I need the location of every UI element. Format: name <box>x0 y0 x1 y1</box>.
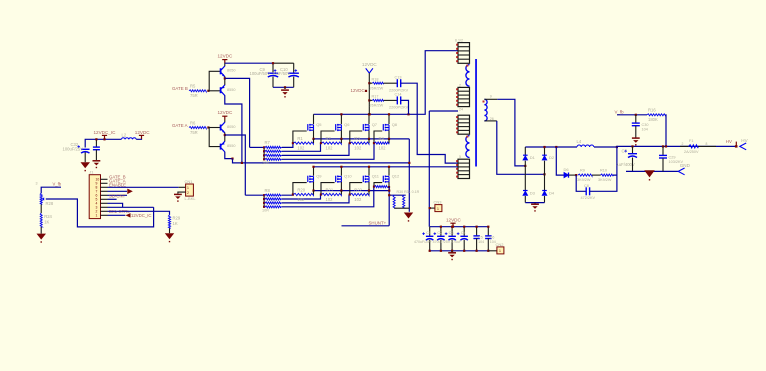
wire damper drop left <box>556 147 564 175</box>
svg-text:100uF/25V: 100uF/25V <box>63 147 84 152</box>
diode D3 <box>523 191 536 196</box>
svg-text:10R: 10R <box>262 208 269 212</box>
svg-text:C3: C3 <box>449 231 454 235</box>
junction R7 row3 <box>263 154 265 156</box>
svg-text:Q12: Q12 <box>392 174 400 179</box>
wire pot to R24 <box>40 204 42 213</box>
transistor Q4 <box>221 141 225 152</box>
svg-text:Q6: Q6 <box>344 122 350 127</box>
svg-text:V_fb: V_fb <box>615 110 625 115</box>
wire top source bus <box>314 138 410 140</box>
wire C29 top <box>662 146 664 155</box>
svg-text:10uF/50V: 10uF/50V <box>272 71 290 76</box>
wire Q2 collector <box>225 95 242 163</box>
wire C29 bottom <box>662 158 664 171</box>
wire bank ground stem <box>451 251 453 253</box>
transistor Q7 mosfet top <box>363 122 378 131</box>
junction drain Q10 <box>340 166 342 168</box>
junction C4 bottom <box>463 250 465 252</box>
capacitor C2 <box>434 232 445 240</box>
wire lower network left bus <box>263 195 265 207</box>
svg-text:8050: 8050 <box>227 125 235 129</box>
svg-text:26R/2W: 26R/2W <box>370 104 384 108</box>
svg-text:R9: R9 <box>580 169 585 173</box>
svg-text:R30 R31 0.1R: R30 R31 0.1R <box>397 190 420 194</box>
wire driver A output <box>225 135 246 195</box>
capacitor C30 <box>632 123 640 126</box>
wire C32 to ground <box>84 152 86 162</box>
junction R18 <box>368 82 370 84</box>
wire R21 to source <box>340 191 342 195</box>
capacitor C6 <box>485 236 492 239</box>
inductor L2 <box>121 138 136 140</box>
wire top drain rail <box>314 51 459 115</box>
net label V_fb output <box>615 110 625 115</box>
junction GATE_B base <box>207 90 209 92</box>
junction R7 row1 <box>263 146 265 148</box>
svg-text:1K: 1K <box>44 219 49 224</box>
wire base PNP B <box>209 90 220 92</box>
wire R2 to source <box>340 139 342 143</box>
wire C5 top lead <box>476 227 478 236</box>
capacitor C5 <box>473 236 480 239</box>
wire Q6 gate lead <box>321 131 335 143</box>
wire J1 pin6 <box>108 198 117 200</box>
wire 12VDC to Q1 collector <box>224 63 226 66</box>
svg-text:R4: R4 <box>379 136 385 141</box>
junction power bank <box>452 226 454 228</box>
ground R29 <box>165 233 174 242</box>
svg-text:Q10: Q10 <box>344 174 352 179</box>
pin number CN1-1 <box>187 186 189 190</box>
junction C9 top <box>272 62 274 64</box>
label C30 <box>642 123 649 127</box>
wire J1 pin10 <box>108 214 126 216</box>
svg-text:100uF/50V: 100uF/50V <box>250 71 271 76</box>
pin 1 connector J1 <box>101 178 108 180</box>
junction C6 bottom <box>487 250 489 252</box>
svg-text:R17: R17 <box>372 95 379 99</box>
svg-text:R2: R2 <box>326 136 332 141</box>
svg-text:R18: R18 <box>372 77 379 81</box>
ground cap bank <box>448 253 456 260</box>
wire Q5 gate lead <box>293 131 307 143</box>
wire Q11 drain <box>368 167 370 176</box>
junction R8 row2 <box>263 198 265 200</box>
resistor R4 gate pulldown <box>375 136 390 151</box>
pin number J1-6 <box>96 194 98 198</box>
junction damper right <box>616 146 618 148</box>
svg-text:2: 2 <box>682 142 684 146</box>
label C6 <box>490 236 495 240</box>
svg-text:D6: D6 <box>564 167 570 172</box>
wire feed upper network <box>250 146 265 148</box>
wire R29 to ground <box>169 228 171 233</box>
wire center tap vertical <box>428 111 430 227</box>
pin number J1-7 <box>96 190 98 194</box>
label R7 <box>265 140 271 145</box>
wire GATE_B bases <box>208 71 220 91</box>
power label 12VDC B <box>218 54 233 59</box>
svg-text:102: 102 <box>297 197 305 202</box>
junction drain Q11 <box>368 166 370 168</box>
label C3 <box>449 231 454 235</box>
value R18 <box>370 86 384 90</box>
resistor R24 <box>40 213 52 227</box>
label C29 <box>669 155 676 159</box>
label L4 <box>577 139 582 144</box>
pin label winding2 <box>459 83 461 87</box>
value R10 <box>598 178 612 182</box>
arrow 12VDC_IC pin10 <box>126 213 131 218</box>
junction damper left <box>555 146 557 148</box>
wire C2 bottom lead <box>440 240 442 251</box>
svg-text:J1: J1 <box>89 169 94 174</box>
port HV <box>740 138 749 150</box>
pin label sec top <box>490 95 492 99</box>
svg-text:24: 24 <box>459 107 463 111</box>
wire C1 bottom lead <box>429 240 431 251</box>
wire V_fb <box>617 114 647 116</box>
wire C1 top lead <box>429 227 431 236</box>
svg-text:R22: R22 <box>354 187 362 192</box>
resistor R29 <box>168 215 180 228</box>
wire bank top rail <box>430 226 489 228</box>
value R17 <box>370 104 384 108</box>
wire Q3 emitter to Q4 <box>224 133 226 142</box>
junction gate Q9 <box>292 193 294 195</box>
svg-text:12VDC: 12VDC <box>218 54 233 59</box>
wire J1 pin7 loop <box>108 203 123 207</box>
resistor R6 <box>189 120 206 135</box>
junction C29 top <box>662 145 664 147</box>
svg-text:ENABLE: ENABLE <box>109 182 126 187</box>
wire J1 pin9 to R29 <box>108 211 170 215</box>
power label 12VDC A <box>218 110 233 115</box>
pin labels winding1 <box>455 39 463 43</box>
wire C6 top lead <box>487 227 489 236</box>
svg-text:12VDC: 12VDC <box>135 130 150 135</box>
junction arrow pin4 <box>127 189 133 195</box>
junction R7 row4 <box>263 158 265 160</box>
svg-text:C8: C8 <box>584 184 589 188</box>
junction C3 bottom <box>451 250 453 252</box>
wire R24 to ground <box>40 227 42 234</box>
label C2 <box>437 231 442 235</box>
svg-text:GND: GND <box>680 163 691 168</box>
label C8 <box>584 184 589 188</box>
transformer secondary <box>484 99 487 121</box>
value C10 <box>272 71 290 76</box>
net label ENABLE <box>109 182 126 187</box>
resistor R3 gate pulldown <box>350 136 369 151</box>
wire damper right up <box>613 147 617 175</box>
junction CN3 <box>429 207 431 209</box>
label F1 <box>689 139 693 143</box>
wire Q10 gate lead <box>321 183 335 195</box>
wire SHUNT+ sense <box>342 225 390 227</box>
wire gate row2 lower <box>282 195 321 200</box>
label Q3 8050 <box>227 125 235 129</box>
capacitor C9 <box>268 69 278 77</box>
pin number J1-1 <box>96 214 98 218</box>
wire 12VDC to Q3 collector <box>224 120 226 123</box>
svg-text:R10: R10 <box>600 169 607 173</box>
wire C3 bottom lead <box>451 240 453 251</box>
label R10 <box>600 169 607 173</box>
svg-text:C1: C1 <box>426 231 431 235</box>
svg-text:2200P/2KV: 2200P/2KV <box>389 106 409 110</box>
wire pot wiper <box>46 199 154 227</box>
value C13 <box>389 88 409 92</box>
wire J1 pin8 to pot loop <box>108 206 154 208</box>
label L2 <box>122 133 127 138</box>
junction C5 bottom <box>476 250 478 252</box>
pin 8 connector J1 <box>101 206 108 208</box>
wire D4 to bottom <box>544 196 546 203</box>
wire shunt top rail <box>389 194 406 196</box>
svg-text:L4: L4 <box>577 139 582 144</box>
label R28 <box>46 201 54 206</box>
wire center tap <box>429 110 458 112</box>
wire R22 to source <box>368 191 370 195</box>
svg-text:L2: L2 <box>122 133 127 138</box>
label R8 network <box>265 188 271 193</box>
net flag HV <box>735 142 738 148</box>
pin number CN1-2 <box>187 191 189 195</box>
power 12VDC left <box>135 130 150 139</box>
label C32 <box>71 142 79 147</box>
svg-text:SD-CNT: SD-CNT <box>109 194 126 199</box>
wire secondary bottom <box>497 121 545 174</box>
svg-text:L-BKL: L-BKL <box>185 196 197 201</box>
wire CN3 stub <box>430 207 435 209</box>
ground C9 C10 <box>281 90 289 97</box>
wire C31 to ground <box>95 150 97 161</box>
junction R8 row3 <box>263 202 265 204</box>
wire C3 top lead <box>451 227 453 236</box>
wire D6 to node <box>569 174 577 176</box>
svg-text:R5: R5 <box>190 84 196 89</box>
value C7 <box>617 162 635 167</box>
resistor R31 <box>403 195 405 208</box>
port GND <box>678 163 690 175</box>
junction source Q6 <box>340 138 342 140</box>
pin label winding4 <box>459 155 461 159</box>
pin number J1-3 <box>96 206 98 210</box>
wire CN2 stub <box>488 250 497 252</box>
transistor Q12 mosfet bottom <box>383 174 400 183</box>
label C5 <box>478 236 483 240</box>
svg-text:102: 102 <box>326 146 334 151</box>
resistor R7 element 1 <box>264 146 282 148</box>
pin 10 connector J1 <box>101 214 108 216</box>
wire Q5 drain <box>313 114 315 124</box>
junction drain Q12 <box>388 166 390 168</box>
junction C2 top <box>440 226 442 228</box>
junction R8 row1 <box>263 194 265 196</box>
svg-text:1: 1 <box>437 207 439 211</box>
port 12VDC <box>362 62 377 73</box>
wire C9C10 ground stem <box>284 87 286 89</box>
junction AC1 <box>524 165 526 167</box>
value R8 network <box>262 208 269 212</box>
pot wiper arrow <box>42 197 45 200</box>
net label 12VDC mid <box>351 88 365 93</box>
diode D2 <box>542 155 555 160</box>
value R9 <box>577 178 591 182</box>
wire secondary bottom pin <box>484 120 496 122</box>
transformer winding 2 <box>456 87 469 106</box>
resistor R30 <box>393 195 395 208</box>
pin label mid <box>459 107 463 111</box>
wire C31 top <box>95 139 97 147</box>
potentiometer R28 <box>40 193 42 204</box>
wire C4 bottom lead <box>463 240 465 251</box>
junction C14 drop <box>407 113 409 115</box>
wire J1 pin4 <box>108 190 128 192</box>
wire Q7 drain <box>368 114 370 124</box>
junction driver A out <box>224 134 226 136</box>
svg-text:HV: HV <box>741 138 748 143</box>
connector CN3 <box>434 200 443 212</box>
wire CN1 pin1 stub <box>179 186 186 188</box>
svg-text:12VDC_IC: 12VDC_IC <box>131 213 152 218</box>
net label GATE B <box>172 86 188 91</box>
svg-text:102: 102 <box>326 197 334 202</box>
svg-text:D2: D2 <box>549 155 555 160</box>
wire main rail L4 left <box>556 146 577 148</box>
wire R3 to source <box>368 139 370 143</box>
svg-text:470uF/25V 470uF/25V 470uF: 470uF/25V 470uF/25V 470uF <box>414 240 462 244</box>
wire V_fb <box>41 187 61 193</box>
svg-text:9: 9 <box>490 95 492 99</box>
wire Q5 source <box>313 130 315 139</box>
svg-text:102: 102 <box>354 197 362 202</box>
wire bottom drain rail <box>314 166 459 168</box>
pin number J1-4 <box>96 202 98 206</box>
wire C6 bottom lead <box>487 238 489 251</box>
diode D6 <box>564 167 570 178</box>
svg-text:75R: 75R <box>190 93 198 98</box>
resistor R2 gate pulldown <box>322 136 342 151</box>
svg-text:GATE B: GATE B <box>172 86 188 91</box>
junction gate Q7 <box>349 142 351 144</box>
junction source Q11 <box>368 190 370 192</box>
wire C9C10 bottom rail <box>273 86 294 88</box>
svg-text:2: 2 <box>459 83 461 87</box>
wire R1 to source <box>313 139 315 143</box>
wire Q12 drain <box>388 167 390 176</box>
value F1 <box>684 150 699 154</box>
svg-text:1K: 1K <box>173 221 178 226</box>
value C8 <box>581 196 596 200</box>
power 12VDC bank <box>450 223 455 227</box>
value C14 <box>389 106 409 110</box>
svg-text:C13: C13 <box>395 75 402 79</box>
capacitor C8 <box>586 187 589 195</box>
wire Q8 gate lead <box>374 131 382 143</box>
svg-text:3K9/2W: 3K9/2W <box>598 178 612 182</box>
value R7 <box>262 161 269 165</box>
svg-text:C2: C2 <box>437 231 442 235</box>
label C14 <box>395 93 402 97</box>
wire gate row3 upper <box>282 143 349 155</box>
resistor R8 element 1 <box>264 194 282 196</box>
svg-text:8550: 8550 <box>227 144 235 148</box>
resistor R8 element 3 <box>264 202 282 204</box>
svg-text:12VDC: 12VDC <box>446 218 461 223</box>
svg-text:R7: R7 <box>265 140 271 145</box>
ground C31 <box>93 161 101 168</box>
junction source Q7 <box>368 138 370 140</box>
transistor Q1 <box>221 66 226 77</box>
wire driver return rail <box>233 159 410 163</box>
pin number J1-2 <box>96 210 98 214</box>
junction 12VDC_IC <box>103 138 105 140</box>
resistor R1 gate pulldown <box>293 136 313 151</box>
svg-text:GATE A: GATE A <box>172 123 188 128</box>
power 12VDC gate B <box>222 60 227 64</box>
pin number J1-8 <box>96 186 98 190</box>
wire R16 down <box>665 115 668 147</box>
svg-text:R28: R28 <box>46 201 54 206</box>
resistor R21 gate pulldown <box>322 187 342 202</box>
junction C31 top <box>95 138 97 140</box>
resistor R7 element 3 <box>264 154 282 156</box>
svg-text:104: 104 <box>478 240 484 244</box>
wire driver B output <box>225 78 250 147</box>
capacitor C29 <box>659 155 667 158</box>
wire C7 bottom <box>632 158 634 172</box>
transistor Q2 <box>221 85 225 96</box>
svg-text:12VDC_IC: 12VDC_IC <box>94 130 117 135</box>
label C1 <box>426 231 431 235</box>
junction gate Q12 <box>373 186 375 188</box>
wire C10 bottom <box>293 77 295 88</box>
svg-text:6 1/2: 6 1/2 <box>455 39 463 43</box>
net label SD-CNT <box>109 194 126 199</box>
values cap bank <box>414 240 462 244</box>
power 12VDC_IC <box>94 130 117 139</box>
pin 2 connector J1 <box>101 182 108 184</box>
svg-text:Q9: Q9 <box>316 174 322 179</box>
ground shunt <box>404 213 413 222</box>
junction C30 <box>635 114 637 116</box>
svg-text:1: 1 <box>96 214 98 218</box>
svg-text:472/2KV: 472/2KV <box>581 196 596 200</box>
wire Q9 source <box>313 182 315 191</box>
wire Q11 gate lead <box>350 183 362 195</box>
pin number pot <box>36 182 38 186</box>
net label HV <box>726 139 732 144</box>
pin number J1-5 <box>96 198 98 202</box>
label Q2 8550 <box>227 88 235 92</box>
pin 6 connector J1 <box>101 198 108 200</box>
svg-text:26R/2W: 26R/2W <box>370 86 384 90</box>
junction C6 top <box>487 226 489 228</box>
svg-text:102: 102 <box>354 146 362 151</box>
wire Q11 source <box>368 182 370 191</box>
wire secondary top pin <box>484 98 497 100</box>
svg-text:104: 104 <box>642 127 648 131</box>
svg-text:180K: 180K <box>648 117 658 122</box>
wire Q7 gate lead <box>350 131 362 143</box>
wire Q6 source <box>340 130 342 139</box>
net label 12VDC_IC pin10 <box>131 213 152 218</box>
junction drain Q7 <box>368 113 370 115</box>
svg-text:D1: D1 <box>530 155 536 160</box>
